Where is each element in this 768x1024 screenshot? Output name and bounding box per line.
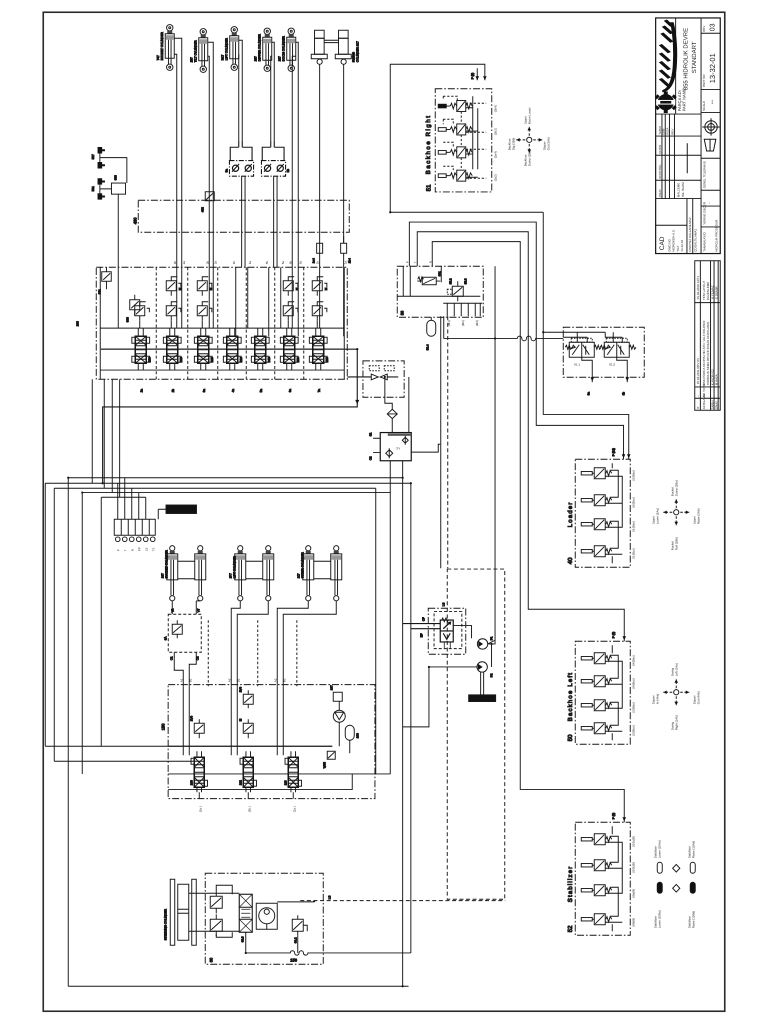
cylinder pair 117 STEER CYLINDER [296,546,342,601]
svg-text:(M3): (M3) [475,320,479,326]
svg-text:3a: 3a [213,261,217,265]
svg-text:1a: 1a [344,261,348,265]
relief 60.2 [292,915,307,943]
cylinder pair 277 LIFT CYLINDER [228,546,274,601]
svg-text:P (12): P (12) [611,448,615,456]
lever valve 52.4 [581,914,611,925]
svg-text:ONAYSIZ KULLANILMAZ: ONAYSIZ KULLANILMAZ [688,217,692,251]
svg-text:2a: 2a [139,389,143,393]
svg-text:15.04.2011 REV 03: 15.04.2011 REV 03 [696,358,700,384]
svg-text:P: P [405,261,409,263]
svg-text:(2b.): (2b.) [247,806,251,812]
relief valve 2V7 [238,718,253,738]
internal wires [397,266,480,296]
wire [466,96,478,177]
svg-text:P (8): P (8) [611,813,615,819]
lever valve 40.1 [581,468,611,479]
svg-text:5a: 5a [281,261,285,265]
svg-text:LS: LS [327,896,331,900]
svg-text:U9b(B): U9b(B) [631,918,635,928]
pilot supply component 608 [91,147,127,267]
relief valve pair section 7a [312,277,328,328]
svg-text:150: 150 [160,723,165,730]
svg-text:601: 601 [97,289,101,294]
wire [100,158,127,189]
wire [292,42,298,267]
svg-text:U9a(B): U9a(B) [631,889,635,899]
svg-text:STANDART: STANDART [691,41,698,73]
svg-text:B2: B2 [236,678,240,682]
check valve block 6A [163,608,201,660]
block boundary 36 [397,266,483,317]
wire branch to valve 61 [543,331,563,333]
priority valve boundary [428,608,466,654]
pilot lever valve 31b [438,124,472,135]
svg-text:Dump (3Ba): Dump (3Ba) [527,150,531,166]
company gear emblem [655,91,677,113]
svg-text:(3a4): (3a4) [493,151,497,158]
svg-text:BOOM CYLINDER: BOOM CYLINDER [281,35,285,61]
svg-text:ONAY: ONAY [714,401,718,409]
svg-text:T: T [413,261,417,263]
svg-text:Backhoe Left: Backhoe Left [567,672,574,721]
svg-text:Raise (10Bb): Raise (10Bb) [691,911,695,929]
cylinder 257 TILT CYLINDER [189,29,208,73]
svg-text:DUZENLEME: DUZENLEME [706,282,710,301]
svg-text:S1: S1 [368,432,372,436]
svg-text:U4(Bas): U4(Bas) [631,655,635,666]
cylinder 747 BUCKET CYLINDER [156,25,175,71]
svg-text:6a: 6a [298,261,302,265]
spool valve 213 section 2b [163,328,182,370]
svg-text:CF: CF [421,617,425,621]
svg-text:KONTROL: KONTROL [658,164,662,179]
svg-text:255: 255 [325,357,329,362]
svg-text:PART NAME: PART NAME [681,88,686,111]
coupler block 5a [224,140,253,267]
svg-text:YERINE GEÇER: YERINE GEÇER [702,201,706,225]
svg-text:TILT CYLINDER: TILT CYLINDER [193,40,197,63]
signature line [686,143,688,173]
svg-text:Out (3Ab): Out (3Ab) [546,137,550,150]
steering priority block SY [368,432,440,492]
svg-text:(2a.): (2a.) [198,806,202,812]
svg-text:PP: PP [137,547,141,551]
svg-text:430: 430 [132,217,137,224]
priority valve [440,618,453,648]
pump P2 [477,662,493,678]
spool valve 255 section 7a [309,328,328,370]
arrow [483,76,487,80]
lever valve 40.2 [581,495,611,506]
lever valve 40.3 [581,519,611,530]
svg-text:35.3: 35.3 [463,278,467,284]
wire [605,463,622,563]
svg-text:1b: 1b [316,261,320,265]
lever valve 52.2 [581,860,611,871]
wire [168,746,390,789]
svg-text:03: 03 [709,23,716,31]
svg-text:Left (1Aa): Left (1Aa) [674,663,678,676]
svg-text:603: 603 [125,317,129,322]
svg-text:248: 248 [267,357,271,362]
svg-text:361: 361 [437,271,441,276]
tiny cell text smudges [658,126,719,252]
relief valve 2V6 [238,687,253,709]
svg-text:MALZEME: MALZEME [676,183,680,198]
svg-text:855 HIDROLIK DEVRE: 855 HIDROLIK DEVRE [682,28,689,90]
spool valve 230 section 2a [132,328,151,370]
svg-text:ÇOGALTILAMAZ: ÇOGALTILAMAZ [693,229,697,252]
block boundary 51 [435,89,492,192]
svg-text:T2: T2 [151,547,155,551]
spool valve 250 section 6a [280,328,299,370]
svg-text:SCALE: SCALE [702,101,706,111]
svg-text:MEKANIZMA: MEKANIZMA [471,697,492,701]
svg-text:60.3: 60.3 [240,936,244,942]
svg-text:Backhoe Right: Backhoe Right [425,114,432,174]
svg-text:TAMAMLAYICI: TAMAMLAYICI [702,232,706,252]
orbital valve 60.3 [239,894,252,942]
svg-text:36: 36 [399,310,404,315]
valve 361 [417,271,441,285]
svg-text:B3: B3 [282,678,286,682]
svg-text:5a: 5a [224,169,228,173]
svg-text:U4(Bos): U4(Bos) [631,678,635,689]
svg-text:5a: 5a [259,389,263,393]
svg-text:ONAY: ONAY [658,189,662,197]
svg-text:156: 156 [290,957,297,962]
wire LS out [277,901,314,903]
wire [432,242,624,823]
wire P [68,478,408,987]
svg-text:CYLINDER 317: CYLINDER 317 [355,41,359,62]
wire [408,377,410,433]
wire [409,222,623,459]
svg-text:Roll (2Bb): Roll (2Bb) [674,537,678,550]
svg-text:REV: REV [670,129,674,135]
svg-text:6b: 6b [288,261,292,265]
svg-text:W05: W05 [322,762,326,769]
svg-text:132: 132 [238,780,242,785]
svg-text:U3(Bas): U3(Bas) [631,702,635,713]
svg-text:52: 52 [567,925,574,932]
bus line N [100,348,344,350]
wire [411,444,440,452]
svg-text:01.02.2010 13/71: 01.02.2010 13/71 [696,276,700,300]
pilot lever valve 31d [438,170,472,181]
svg-text:1a4: 1a4 [311,258,315,263]
svg-text:U1(Bos): U1(Bos) [631,548,635,559]
cylinder pipes [172,601,336,686]
svg-text:LIFT CYLINDER: LIFT CYLINDER [232,555,236,578]
joystick cross icon [651,663,700,730]
cylinder pair 137 BUCKET CYLINDER [160,546,206,601]
svg-text:40: 40 [567,557,574,564]
pilot block Backhoe Left 50 [567,641,636,744]
svg-text:Dump (2Ba): Dump (2Ba) [674,480,678,496]
svg-text:IMZA: IMZA [665,128,669,135]
svg-text:N: N [428,261,432,263]
svg-text:C1: C1 [169,656,173,660]
gauge manifold comb [443,303,482,326]
svg-text:Lower (10Ba): Lower (10Ba) [657,910,661,928]
pilot boundary 430 [132,200,349,232]
svg-text:Right (1Ab): Right (1Ab) [674,715,678,730]
svg-text:225: 225 [210,357,214,362]
svg-text:M.KAYA: M.KAYA [714,374,718,385]
engine label plate [469,695,496,701]
wire [417,232,624,642]
svg-text:ISIL ISLEM: ISIL ISLEM [681,182,685,198]
svg-text:B1: B1 [188,678,192,682]
wire [271,42,275,140]
arrow stabilizer P [622,817,626,821]
svg-text:C2: C2 [368,456,372,460]
solenoid valve 61.2 [600,338,636,366]
small inline valve 402 [200,192,214,213]
svg-text:BUCKET CYLINDER: BUCKET CYLINDER [160,31,164,60]
bank supply drops [92,379,119,497]
svg-text:1V6: 1V6 [189,716,193,722]
coupler block 5b [261,140,289,267]
wire N [54,488,376,774]
svg-text:230: 230 [147,357,151,362]
svg-text:CAD: CAD [659,236,666,250]
spool valve 225 section 3a [194,328,213,370]
svg-text:226: 226 [239,357,243,362]
wire [389,493,391,774]
lever valve 50.2 [581,676,611,687]
cylinder 227 BOOM CYLINDER [277,28,296,71]
svg-text:5b: 5b [265,261,269,265]
bus line P [100,327,344,329]
stabilizer switch icons [653,840,695,928]
lever valve 52.1 [581,834,611,845]
svg-text:608: 608 [113,175,117,180]
cylinder R17 LIFT CYLINDER [220,27,239,71]
svg-text:In (4Aa): In (4Aa) [655,694,659,705]
hose squiggle [444,336,564,341]
svg-text:P2: P2 [489,673,493,677]
drain wires [582,357,628,382]
wire [174,38,182,267]
svg-text:BUCKET CYLINDER: BUCKET CYLINDER [164,549,168,578]
svg-text:O.DEMIR: O.DEMIR [714,286,718,300]
wire PP [82,493,390,774]
svg-text:Lower (2Aa): Lower (2Aa) [655,508,659,524]
svg-text:DIPPER CYLINDER: DIPPER CYLINDER [257,33,261,61]
part name text [677,23,717,111]
pilot lines [443,96,486,178]
svg-text:(3b2): (3b2) [493,128,497,135]
check valve diamond [385,377,392,409]
block boundary 60 [205,873,323,964]
pilot lever valve 31a [438,101,472,112]
spool valve 130 [191,751,207,792]
svg-text:U10b(B): U10b(B) [631,862,635,873]
relief valve pair section 6a [283,277,299,328]
relief valve pair section 2a [135,302,150,328]
svg-text:61.1: 61.1 [574,362,580,366]
swing line restrictors 1a4 1b4 [311,236,351,267]
wire tank bottom [246,951,411,955]
svg-text:ÇIZEN: ÇIZEN [658,145,662,154]
wires into bank ports [118,267,343,336]
svg-text:50: 50 [567,734,574,741]
title block outer [656,18,721,254]
filter and accumulator 137 106 [329,685,359,753]
svg-text:591: 591 [91,186,95,191]
svg-text:Raise (10Ab): Raise (10Ab) [691,841,695,859]
title block cell lines [656,18,721,254]
pilot block Stabilizer 52 [567,822,636,935]
relief valve pair section 3a [197,277,213,328]
block boundary [563,327,644,377]
wire CF EF [403,624,441,629]
port labels [173,261,348,265]
wire [117,194,119,267]
svg-text:T: T [123,549,127,551]
svg-text:U2(Bas): U2(Bas) [631,470,635,481]
lever valve 40.4 [581,546,611,557]
LS lines down to pump [441,266,495,644]
svg-text:LS: LS [144,548,148,552]
svg-text:250: 250 [296,357,300,362]
pump P1 [477,636,493,649]
svg-text:Raise (2Ab): Raise (2Ab) [696,508,700,524]
shock valve 2 [210,914,222,936]
svg-text:U10a(B): U10a(B) [631,836,635,847]
svg-text:3b: 3b [621,392,625,396]
svg-text:2b: 2b [173,261,177,265]
svg-text:203: 203 [75,321,79,326]
svg-text:N: N [130,549,134,551]
bus line T [100,369,344,371]
wire [488,640,495,667]
spool valve 248 section 5a [251,328,270,370]
wire [441,316,444,568]
svg-text:Lower (10Aa): Lower (10Aa) [657,840,661,858]
svg-text:60: 60 [208,957,213,962]
wire [403,478,411,987]
quick coupler plugs 591 [98,178,105,199]
svg-text:--: -- [696,395,700,397]
reservoir label plate [158,505,196,519]
svg-text:3a: 3a [586,392,590,396]
svg-text:U2(Bos): U2(Bos) [631,497,635,508]
svg-text:U3(Bos): U3(Bos) [631,725,635,736]
wire T [45,483,411,746]
small valve W05 [322,751,335,768]
svg-text:PART NO: PART NO [702,74,706,88]
svg-text:60.2: 60.2 [293,937,297,943]
tank return from bank [103,349,358,483]
solenoid pair block [347,361,404,397]
wire LS [101,497,146,746]
svg-text:106: 106 [355,733,359,738]
svg-text:Boom Lower: Boom Lower [527,107,531,124]
suction wire [403,667,477,727]
projection symbol circle [702,118,720,135]
svg-text:A1: A1 [179,678,183,682]
svg-text:587: 587 [91,154,95,159]
relief valve pair section 2b [166,277,182,328]
lever valve 52.3 [581,885,611,896]
wire [205,885,239,937]
bank inner rails [100,267,344,379]
inlet relief 601 [97,267,111,294]
svg-text:130: 130 [189,780,193,785]
company logo script [659,19,677,92]
solenoid valve 61.1 [565,338,601,366]
svg-text:(3b4): (3b4) [493,105,497,112]
wire priority to P1 [453,626,471,639]
svg-text:4a: 4a [248,261,252,265]
lever valve 50.1 [581,653,611,664]
svg-text:1b4: 1b4 [347,258,351,263]
svg-text:--: -- [707,202,711,204]
svg-text:A2: A2 [227,678,231,682]
svg-text:STEER CYLINDER: STEER CYLINDER [300,551,304,578]
revision table [695,261,721,411]
lever valve 50.4 [581,723,611,734]
svg-text:5b: 5b [286,169,290,173]
svg-text:STEERING CYLINDER: STEERING CYLINDER [163,908,167,940]
svg-text:7a: 7a [317,389,321,393]
svg-text:402: 402 [200,207,204,212]
svg-text:A3: A3 [273,678,277,682]
svg-text:HIDROLIK SEMA REVIZE EDILDI ON: HIDROLIK SEMA REVIZE EDILDI ONAYLANDI [706,322,710,386]
pilot block Loader 40 [567,459,636,567]
wire [476,68,478,80]
small cells left column [656,114,701,254]
wire return [246,932,298,953]
accumulator 33.4 [425,317,436,350]
svg-text:Loader: Loader [567,501,574,527]
wire pump pressure [488,266,495,644]
svg-text:HIDROLIK PROSEDUR: HIDROLIK PROSEDUR [714,219,718,252]
svg-text:Stabilizer: Stabilizer [567,866,574,903]
internal wires [563,332,622,342]
supply wire loop [390,64,543,212]
svg-text:LS: LS [441,603,445,607]
inlet relief 603 [125,295,140,323]
svg-text:118: 118 [283,780,287,785]
svg-text:U1(Bas): U1(Bas) [631,521,635,532]
svg-text:3a: 3a [202,389,206,393]
svg-text:Dig (3Bb): Dig (3Bb) [511,138,515,151]
joystick cross icon [651,480,700,550]
bank boundary [96,267,347,379]
svg-text:2b: 2b [171,389,175,393]
svg-text:P1: P1 [489,636,493,640]
svg-text:61.2: 61.2 [609,362,615,366]
lever valve 50.3 [581,700,611,711]
svg-text:(1a.): (1a.) [292,806,296,812]
spool valve 132 [240,751,256,792]
wire [239,40,243,140]
steering cylinder [163,879,205,945]
cylinder 267 DIPPER CYLINDER [253,28,272,71]
svg-text:2a: 2a [182,261,186,265]
wire [605,645,622,740]
svg-text:13-32-01: 13-32-01 [708,53,717,83]
svg-text:V7: V7 [196,608,200,612]
port tick labels 36 block [405,261,432,263]
arrow backhoe left P [622,636,626,640]
svg-text:(M2): (M2) [461,320,465,326]
